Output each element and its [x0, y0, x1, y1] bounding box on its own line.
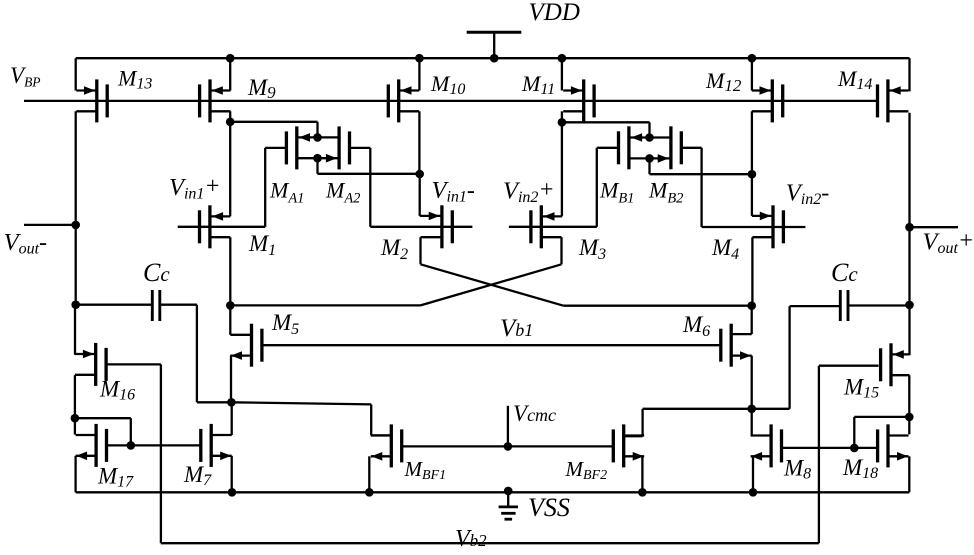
wire Vin1+ gate line [178, 226, 266, 228]
transistor M7 [201, 424, 232, 467]
M15 label [843, 375, 879, 402]
M18 label [842, 455, 878, 482]
junction M11 drain node [558, 118, 567, 127]
wire Vcmc stub [507, 406, 509, 447]
junction M12 drain node [748, 170, 757, 179]
wire M12 drain to M4 drain [751, 174, 753, 216]
junction Vcmc node [504, 442, 513, 451]
wire M16 drain to M17 gate [75, 418, 131, 445]
wire M16 gate to Vb2 [106, 364, 161, 543]
wire M16 drain down [74, 375, 76, 418]
wire M14 drain to Vout+ node [908, 113, 910, 227]
wire MB sources to M12 drain [650, 158, 752, 174]
wire VSS rail [76, 491, 910, 493]
wire M12 drain down [751, 111, 753, 174]
wire Vin2+ gate line [509, 226, 597, 228]
junction M7 source [228, 488, 237, 497]
svg-text:Vb1: Vb1 [500, 315, 533, 342]
junction VDD rail / VDD [490, 54, 499, 63]
wire MA pair top lead [297, 133, 339, 142]
wire M8 gate line [783, 447, 878, 449]
M13 label [117, 66, 152, 93]
wire M9 drain down [229, 111, 231, 122]
wire M1 source down [229, 237, 231, 305]
transistor M9 [200, 58, 231, 122]
MB2 label [648, 178, 683, 207]
transistor M11 [562, 58, 594, 122]
MB1 label [599, 178, 634, 207]
wire M6 source down [751, 356, 753, 409]
wire Vin1- gate line [370, 226, 472, 228]
transistor M12 [752, 58, 783, 122]
junction MA bottom [313, 154, 322, 163]
junction VDD rail / M11 source [558, 54, 567, 63]
VSS label [528, 493, 570, 522]
wire MB2 gate to Vin2- line [681, 148, 701, 227]
wire Vin2- gate line [702, 226, 806, 228]
transistor M4 [752, 205, 784, 248]
M7 label [183, 462, 212, 489]
wire Cc right lead [848, 304, 910, 306]
svg-text:VSS: VSS [528, 493, 570, 522]
Vin2- label [786, 180, 829, 208]
svg-text:Cc: Cc [831, 258, 858, 287]
transistor MA2 [339, 126, 349, 169]
transistor MBF1 [371, 424, 402, 467]
junction Vout- node [71, 221, 80, 230]
wire M10 drain down [418, 111, 420, 174]
junction right tail node [747, 301, 756, 310]
Vin1+ label [169, 174, 221, 203]
junction VSS ground tap [504, 487, 513, 496]
junction M16 drain node [71, 414, 80, 423]
junction Cc right tap [905, 301, 914, 310]
wire M10 drain to M2 drain [419, 174, 421, 216]
Vin1- label [432, 177, 475, 205]
junction M5 source node [227, 398, 236, 407]
wire Vout+ stub [910, 226, 959, 228]
wire MB pair top lead [629, 133, 671, 142]
Vb2 label [455, 526, 487, 552]
transistor M14 [878, 58, 910, 122]
Vout+ label [923, 228, 974, 257]
wire M4 source down [751, 237, 753, 306]
VBP label [10, 63, 41, 90]
wire Cc right to M6 source node [752, 306, 841, 409]
wire M16 drain to M17 drain [74, 418, 76, 434]
junction M17 gate node [127, 441, 136, 450]
wire top VDD rail [76, 57, 910, 59]
wire MBF1 gate line [402, 445, 613, 447]
transistor MB1 [619, 126, 629, 169]
wire Vout- to M16 source [74, 305, 76, 355]
M9 label [247, 75, 276, 102]
transistor M15 [881, 343, 910, 386]
transistor M1 [200, 205, 231, 248]
transistor MBF2 [613, 424, 644, 467]
wire MA1 gate to Vin1+ line [265, 148, 286, 227]
transistor M16 [75, 343, 106, 386]
wire M3 source drop [560, 237, 562, 264]
junction MA top [313, 133, 322, 142]
wire M9 drain to M1 drain [229, 122, 231, 217]
Cc right label [831, 258, 858, 287]
junction M8 gate node [850, 444, 859, 453]
wire Vout+ to M15 source [908, 305, 910, 355]
VDD power symbol [467, 32, 522, 58]
wire M8 drain up [751, 409, 753, 436]
wire M15 drain to M18 gate [854, 417, 909, 448]
wire M8 source down [752, 456, 754, 492]
M11 label [521, 71, 555, 98]
wire M18 source down [908, 456, 910, 492]
wire Vout- node to Cc [75, 225, 77, 305]
M2 label [380, 235, 408, 263]
MA2 label [325, 178, 360, 207]
MBF1 label [404, 457, 447, 483]
wire M7 drain up [231, 402, 233, 435]
junction VDD rail / M9 source [226, 54, 235, 63]
M3 label [578, 235, 606, 263]
capacitor Cc left [152, 290, 160, 321]
wire M6 source node to MBF2 drain [624, 409, 752, 436]
wire M2 source diagonal [421, 264, 564, 305]
transistor M13 [76, 58, 108, 122]
junction M8 source [749, 488, 758, 497]
M16 label [99, 377, 135, 404]
junction M6 source node [747, 405, 756, 414]
wire M5 source down [230, 356, 232, 403]
transistor M17 [76, 424, 107, 467]
M6 label [682, 312, 710, 340]
transistor MB2 [671, 126, 681, 169]
junction left tail node [226, 301, 235, 310]
wire M2 source drop [419, 237, 421, 264]
Vout- label [4, 229, 47, 257]
wire Vout- stub [24, 224, 76, 226]
wire MBF2 source down [641, 456, 643, 492]
wire MA2 gate to Vin1- line [350, 148, 371, 227]
transistor M10 [388, 58, 419, 122]
wire M11 drain to MB pair [562, 122, 650, 137]
transistor M18 [878, 424, 909, 467]
wire Cc left to tail node [160, 305, 232, 403]
junction MB top [645, 133, 654, 142]
M10 label [430, 71, 465, 98]
svg-text:Vcmc: Vcmc [513, 401, 556, 426]
wire M3 source diagonal [421, 264, 562, 305]
wire M15 gate to Vb2 [819, 366, 879, 544]
capacitor Cc right [840, 290, 848, 321]
wire M17 gate line [106, 444, 202, 446]
Vin2+ label [503, 177, 555, 206]
M12 label [705, 68, 742, 95]
junction MBF1 source [365, 488, 374, 497]
junction Cc left tap [71, 300, 80, 309]
transistor MA1 [286, 126, 296, 169]
transistor M6 [721, 324, 752, 367]
wire left tail line [230, 304, 420, 306]
wire right tail to M6 drain [731, 306, 752, 334]
wire Vb1 gate rail [262, 344, 721, 346]
junction M15 drain node [905, 413, 914, 422]
M1 label [248, 231, 276, 259]
junction M9 drain node [226, 118, 235, 127]
wire M13 drain to Vout- node [75, 111, 77, 225]
transistor M2 [420, 205, 453, 248]
wire Vout+ node to Cc [908, 227, 910, 305]
M17 label [97, 464, 134, 491]
wire MA pair bottom lead [297, 154, 339, 163]
transistor M5 [230, 324, 262, 367]
wire M9 drain to MA pair [230, 122, 317, 138]
MBF2 label [565, 457, 608, 483]
svg-text:Cc: Cc [143, 258, 170, 287]
junction Vout+ node [905, 223, 914, 232]
wire MB pair bottom lead [629, 154, 671, 163]
wire M7 source down [231, 456, 233, 493]
wire MBF1 source down [368, 456, 370, 492]
wire M15 drain to M18 drain [908, 417, 910, 434]
M8 label [783, 456, 811, 483]
junction MB bottom [645, 154, 654, 163]
svg-text:VDD: VDD [529, 0, 580, 26]
wire M5 source node to MBF1 drain [231, 402, 391, 435]
wire MA sources to M10 drain [318, 158, 420, 174]
M4 label [711, 235, 739, 263]
wire M11 drain down [561, 111, 563, 122]
junction M10 drain node [415, 170, 424, 179]
wire left tail to M5 drain [230, 305, 251, 334]
junction MBF2 source [638, 488, 647, 497]
wire MB1 gate to Vin2+ line [597, 148, 619, 227]
M14 label [837, 66, 872, 93]
transistor M3 [531, 205, 562, 248]
wire M15 drain down [908, 375, 910, 417]
Cc left label [143, 258, 170, 287]
M5 label [271, 310, 299, 338]
MA1 label [269, 178, 304, 207]
junction VDD rail / M12 source [748, 54, 757, 63]
VDD label [529, 0, 580, 26]
junction VDD rail / M10 source [415, 54, 424, 63]
wire M17 source down [74, 456, 76, 493]
wire Vb2 line [161, 542, 819, 544]
wire right tail line [563, 305, 751, 307]
wire M11 drain to M3 drain [561, 122, 563, 216]
Vb1 label [500, 315, 533, 342]
wire Cc left lead [76, 304, 152, 306]
Vcmc label [513, 401, 556, 426]
transistor M8 [751, 424, 782, 467]
ground symbol VSS [499, 491, 518, 519]
wire VBP gate rail [24, 100, 877, 102]
